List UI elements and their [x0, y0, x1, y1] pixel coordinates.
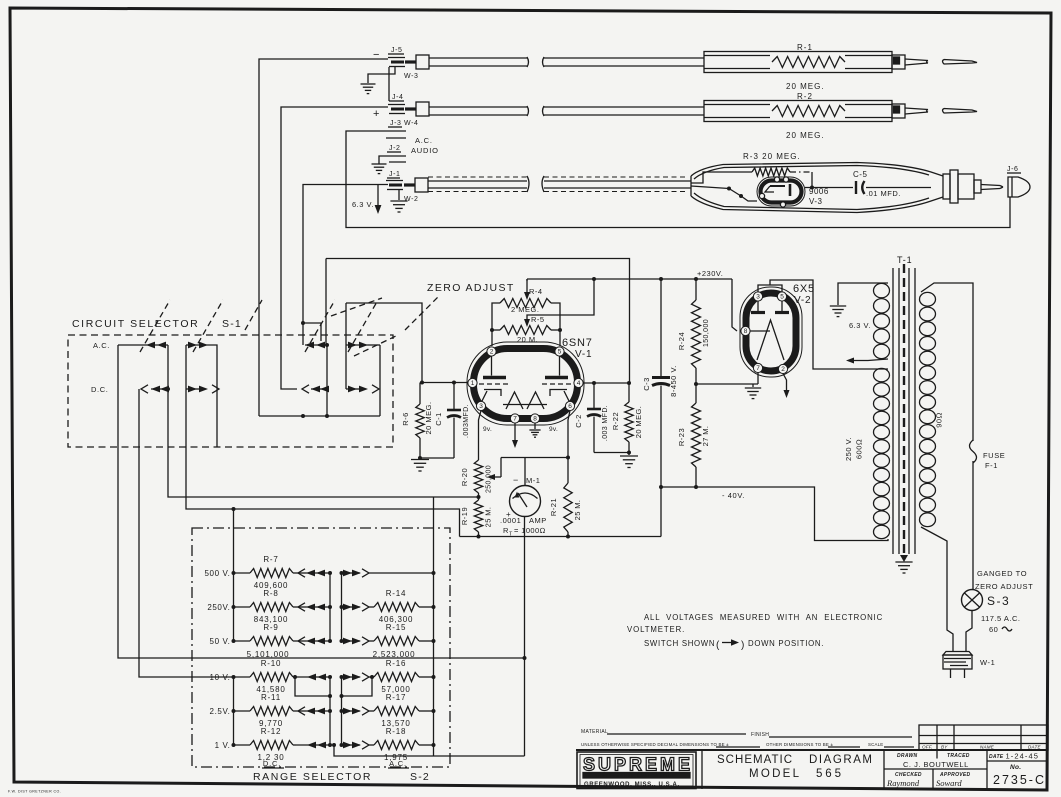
label A.C. AUDIO	[411, 136, 439, 155]
label CIRCUIT SELECTOR S-1	[72, 318, 242, 330]
ground J-5	[361, 84, 376, 94]
label R-22	[611, 406, 643, 438]
plug W-4	[404, 102, 429, 127]
svg-text:1: 1	[471, 380, 475, 387]
resistor R-19	[474, 497, 482, 539]
svg-text:20 MEG.: 20 MEG.	[424, 401, 433, 434]
wire node to contact	[303, 323, 321, 341]
pin V-2 7	[753, 363, 762, 372]
wire R-3 right dash-dot	[790, 172, 814, 190]
wire S-1 AC4 down	[379, 345, 381, 416]
wire R-5 wiper riser	[527, 277, 596, 317]
svg-text:1-24-45: 1-24-45	[1006, 752, 1040, 761]
svg-text:20 MEG.: 20 MEG.	[786, 82, 825, 91]
label FUSE F-1	[983, 451, 1005, 470]
label 6SN7 V-1	[562, 337, 593, 360]
tube V-2 6X5 envelope	[740, 287, 802, 377]
wire grid bus	[259, 414, 380, 418]
resistor R-2	[772, 106, 845, 117]
probe W-2 cable	[428, 176, 691, 192]
title block credits	[884, 750, 987, 789]
label 250V winding	[844, 437, 864, 461]
tube V-2 plates	[751, 300, 789, 313]
svg-text:= 1000Ω: = 1000Ω	[514, 526, 546, 535]
winding 90ohm	[920, 292, 936, 526]
probe R-2 tip	[892, 104, 977, 118]
svg-text:C-1: C-1	[434, 412, 443, 426]
svg-text:.003 MFD.: .003 MFD.	[602, 405, 609, 441]
wire 6.3V bottom arrow	[846, 358, 888, 364]
svg-text:2: 2	[490, 349, 494, 356]
tube V-3 9006	[757, 177, 805, 207]
wire 6.3V heater branch	[375, 185, 382, 215]
svg-text:20 M.: 20 M.	[517, 335, 538, 344]
svg-text:ZERO ADJUST: ZERO ADJUST	[975, 582, 1033, 591]
jack J-5	[388, 47, 405, 67]
resistor R-3	[752, 168, 790, 176]
svg-text:D.C.: D.C.	[91, 385, 108, 394]
ground J-1	[390, 201, 407, 212]
svg-text:+230V.: +230V.	[697, 269, 723, 278]
label 5,101,000	[247, 650, 290, 659]
wire meter plus riser	[524, 655, 526, 756]
label 6.3V jack	[352, 200, 374, 209]
wire probe cathode	[691, 186, 757, 201]
svg-text:TRACED: TRACED	[947, 753, 970, 759]
wire 10V jumper left	[293, 675, 332, 698]
label R-1	[797, 43, 813, 52]
label 117.5 A.C. 60	[981, 614, 1020, 634]
switch S-1 DC group1	[141, 385, 169, 393]
probe R-2 body	[704, 101, 892, 122]
svg-text:MODEL: MODEL	[749, 768, 801, 780]
svg-text:27 M.: 27 M.	[701, 426, 710, 447]
logo SUPREME	[577, 752, 696, 789]
svg-text:6.3 V.: 6.3 V.	[849, 321, 871, 330]
svg-text:W-2: W-2	[404, 196, 419, 203]
pin V-1 5	[555, 347, 564, 356]
svg-text:V-3: V-3	[809, 197, 823, 206]
switch S-1 AC group3	[305, 342, 329, 349]
svg-text:DATE: DATE	[989, 754, 1004, 760]
svg-text:1 V.: 1 V.	[215, 741, 231, 750]
svg-text:AUDIO: AUDIO	[411, 146, 439, 155]
wire S-2 right bus	[433, 497, 435, 745]
svg-text:C-2: C-2	[574, 414, 583, 428]
label RANGE SELECTOR S-2	[253, 771, 430, 783]
capacitor C-3	[652, 279, 670, 537]
wire pin2 heater arrow	[783, 374, 790, 399]
wire S-2 left bus lower	[233, 677, 235, 745]
label 6X5 V-2	[793, 283, 815, 306]
tube V-1 6SN7 envelope	[467, 342, 584, 425]
ground J-2	[372, 164, 387, 174]
svg-text:2.5V.: 2.5V.	[210, 707, 231, 716]
svg-text:R-12: R-12	[261, 727, 282, 736]
wire R-4 left riser	[492, 303, 500, 346]
svg-text:DATE: DATE	[1028, 745, 1041, 750]
svg-text:6.3 V.: 6.3 V.	[352, 200, 374, 209]
wire pin3 to R-20	[479, 411, 482, 461]
svg-text:.01 MFD.: .01 MFD.	[866, 189, 901, 198]
wire 90ohm bottom	[921, 527, 953, 651]
wire S-1 bus1 to R-20 node	[168, 389, 478, 497]
svg-text:T-1: T-1	[897, 255, 912, 265]
resistor R-22	[625, 383, 633, 455]
capacitor C-1	[447, 383, 461, 459]
node J-1 riser	[301, 321, 305, 325]
svg-text:25 M.: 25 M.	[573, 500, 582, 521]
svg-text:20 MEG.: 20 MEG.	[786, 131, 825, 140]
tube V-1 heater	[503, 392, 547, 409]
label R-21	[549, 498, 582, 521]
label 9v right	[549, 426, 558, 433]
note switch shown	[644, 639, 824, 651]
svg-text:DIAGRAM: DIAGRAM	[809, 754, 874, 766]
svg-text:5,101,000: 5,101,000	[247, 650, 290, 659]
pin V-2 2	[778, 364, 787, 373]
label R-2	[797, 92, 813, 101]
svg-text:R-21: R-21	[549, 498, 558, 516]
svg-text:SWITCH SHOWN: SWITCH SHOWN	[644, 639, 715, 648]
svg-text:2,523,000: 2,523,000	[373, 650, 416, 659]
resistor R-4	[500, 299, 551, 308]
wire to 6X5 pin8	[732, 279, 737, 331]
svg-text:R-6: R-6	[401, 412, 410, 426]
probe R-1 body	[704, 52, 892, 73]
wire J-1 sleeve to ground	[398, 190, 400, 201]
wire J-1 to S-1	[303, 185, 388, 346]
svg-text:3: 3	[756, 294, 760, 301]
wire S-1 AC group1 feed	[118, 344, 168, 346]
svg-text:(: (	[716, 640, 720, 651]
label R-24	[677, 319, 710, 350]
svg-text:R-5: R-5	[531, 315, 545, 324]
title block rules	[576, 729, 1048, 750]
label W-1	[980, 658, 995, 667]
label R-23	[677, 426, 710, 447]
wire lamp to plug	[966, 611, 972, 652]
label 2,523,000	[373, 650, 416, 659]
switch S-1 AC group1	[146, 342, 166, 349]
tube V-1 grids	[479, 383, 572, 385]
wire 90ohm top to fuse	[921, 283, 973, 441]
pin V-1 1	[468, 378, 477, 387]
svg-text:6SN7: 6SN7	[562, 337, 593, 349]
pot wiper R-5	[524, 317, 530, 327]
svg-text:C. J. BOUTWELL: C. J. BOUTWELL	[903, 760, 969, 769]
svg-text:S-1: S-1	[222, 318, 242, 330]
label 6.3V winding	[849, 321, 871, 330]
winding 6.3V	[874, 283, 890, 358]
svg-text:R-18: R-18	[386, 727, 407, 736]
svg-text:3: 3	[479, 403, 483, 410]
tube V-1 cathodes	[482, 390, 570, 403]
svg-text:R-7: R-7	[263, 555, 278, 564]
svg-text:J-1: J-1	[389, 171, 401, 178]
svg-text:J-5: J-5	[391, 47, 403, 54]
svg-text:250 V.: 250 V.	[844, 437, 853, 461]
pin V-2 3	[753, 292, 762, 301]
label R-20	[460, 465, 493, 493]
wire pin6 to R-21	[566, 411, 570, 484]
svg-text:R-2: R-2	[797, 92, 813, 101]
svg-text:A.C.: A.C.	[415, 136, 433, 145]
svg-text:BY: BY	[941, 745, 948, 750]
pot wiper R-20	[487, 458, 501, 481]
ground pin8	[529, 423, 540, 437]
winding 250V	[874, 368, 890, 538]
label R-2 value	[786, 131, 825, 140]
resistor R-6	[416, 383, 424, 459]
wire meter plus bus	[332, 743, 525, 756]
svg-text:9v.: 9v.	[483, 426, 492, 433]
svg-text:MATERIAL: MATERIAL	[581, 729, 608, 735]
svg-text:5: 5	[780, 294, 784, 301]
resistor rows R-7..R-12 R-14..R-18	[205, 555, 436, 762]
switch S-1 DC group4	[346, 385, 379, 393]
svg-text:OTHER DIMENSIONS TO BE ±: OTHER DIMENSIONS TO BE ±	[766, 742, 833, 747]
svg-text:90Ω: 90Ω	[935, 412, 944, 428]
wire S-1 gang bus1	[166, 345, 170, 391]
svg-text:R-24: R-24	[677, 332, 686, 350]
wire pin7 heater arrow	[512, 423, 518, 448]
wire J-5 to S-1	[259, 59, 388, 416]
svg-text:CIRCUIT SELECTOR: CIRCUIT SELECTOR	[72, 318, 199, 330]
tube V-2 cathode	[749, 320, 784, 360]
wire J-6 to J-3	[346, 131, 1010, 228]
svg-text:R-11: R-11	[261, 693, 281, 702]
svg-text:.003MFD.: .003MFD.	[463, 404, 470, 438]
svg-text:+: +	[373, 108, 379, 120]
svg-text:- 40V.: - 40V.	[722, 491, 745, 500]
svg-text:R-19: R-19	[460, 507, 469, 525]
wire J-5 sleeve to ground	[368, 67, 395, 102]
svg-text:UNLESS OTHERWISE SPECIFIED DEC: UNLESS OTHERWISE SPECIFIED DECIMAL DIMEN…	[581, 742, 729, 747]
ground core	[895, 555, 912, 573]
wire S-1 AC1 down	[118, 345, 527, 660]
probe R-1 cable	[429, 57, 704, 67]
wire bottom bus	[460, 536, 662, 538]
svg-text:W-1: W-1	[980, 658, 995, 667]
svg-text:2: 2	[781, 366, 785, 373]
label R-3 value	[743, 152, 801, 161]
resistor R-24	[692, 279, 701, 386]
svg-text:7: 7	[513, 416, 517, 423]
gang link S-1 dashed	[140, 297, 438, 356]
wire -40V bus	[661, 487, 888, 541]
capacitor C-2	[587, 383, 629, 453]
svg-text:W-4: W-4	[404, 120, 419, 127]
svg-text:FINISH: FINISH	[751, 732, 769, 738]
switch S-1 AC group2	[186, 342, 217, 447]
svg-text:AMP: AMP	[529, 516, 547, 525]
label M-1 rating	[500, 516, 547, 538]
wire plate to C-5	[805, 187, 853, 189]
label R-1 value	[786, 82, 825, 91]
svg-text:−: −	[513, 475, 518, 485]
label C-1	[434, 404, 470, 438]
label 9006 V-3	[809, 187, 829, 206]
svg-text:50 V.: 50 V.	[210, 637, 231, 646]
svg-text:250,000: 250,000	[486, 465, 493, 493]
resistor R-1	[772, 57, 845, 68]
jack J-2	[386, 145, 406, 162]
svg-text:INSTRUMENTS CORPORATION: INSTRUMENTS CORPORATION	[596, 774, 675, 778]
wire R-24 R-23 node to pin7	[696, 373, 758, 385]
resistor R-23	[692, 384, 701, 489]
svg-text:20 MEG.: 20 MEG.	[634, 406, 643, 438]
svg-text:VOLTMETER.: VOLTMETER.	[627, 625, 685, 634]
svg-text:GANGED TO: GANGED TO	[977, 569, 1027, 578]
selector S-2 box	[192, 528, 450, 767]
svg-text:R-10: R-10	[261, 659, 282, 668]
wire meter top	[501, 458, 568, 502]
svg-text:D.C.: D.C.	[263, 759, 281, 768]
svg-text:Raymond: Raymond	[886, 778, 920, 788]
svg-text:J-6: J-6	[1007, 166, 1019, 173]
svg-text:R-16: R-16	[386, 659, 407, 668]
probe R-1 tip	[892, 55, 977, 69]
svg-text:4: 4	[577, 380, 581, 387]
svg-text:565: 565	[816, 768, 843, 780]
plug W-1	[943, 652, 972, 679]
wire S-1 DC2 down	[186, 389, 460, 537]
pin V-1 7	[510, 414, 519, 423]
node C-3 -40V	[659, 485, 663, 489]
svg-text:25 M.: 25 M.	[484, 507, 493, 528]
wire S-1 DC1 down	[139, 389, 234, 677]
revision table	[919, 725, 1048, 750]
svg-text:M-1: M-1	[526, 476, 540, 485]
svg-text:W-3: W-3	[404, 73, 419, 80]
svg-text:R-17: R-17	[386, 693, 407, 702]
svg-text:117.5 A.C.: 117.5 A.C.	[981, 614, 1020, 623]
svg-text:9006: 9006	[809, 187, 829, 196]
svg-text:2735-C: 2735-C	[993, 773, 1046, 787]
wire plate bus	[583, 381, 631, 385]
label C-3	[642, 365, 678, 397]
probe connector rings	[943, 170, 1003, 203]
title text	[702, 750, 874, 789]
svg-text:60: 60	[989, 625, 998, 634]
label +230V	[697, 269, 723, 278]
plug W-3	[404, 55, 429, 80]
wire fuse to lamp	[972, 461, 974, 590]
svg-text:R-20: R-20	[460, 468, 469, 486]
meter M-1	[506, 475, 541, 519]
ground 6X5 cathode ret	[745, 384, 761, 399]
svg-text:DRAWN: DRAWN	[897, 753, 917, 759]
node grid bus	[0, 0, 1, 1]
label plus J-4	[373, 108, 379, 120]
svg-text:ALL VOLTAGES MEASURED WITH: ALL VOLTAGES MEASURED WITH AN ELECTRONIC	[644, 613, 883, 622]
wire 6.3V top to ground	[838, 283, 888, 305]
svg-text:R-3 20 MEG.: R-3 20 MEG.	[743, 152, 801, 161]
jack J-1	[386, 171, 403, 190]
label A.C. row	[93, 341, 110, 350]
switch S-1 DC group3	[302, 385, 329, 393]
svg-text:R-8: R-8	[263, 589, 278, 598]
wire screen top	[326, 259, 630, 384]
svg-text:FUSE: FUSE	[983, 451, 1005, 460]
probe R-2 cable	[429, 106, 704, 116]
svg-text:2 MEG.: 2 MEG.	[511, 305, 539, 314]
svg-text:OFF.: OFF.	[922, 745, 933, 750]
connector J-6	[1007, 166, 1030, 197]
svg-text:R-23: R-23	[677, 428, 686, 446]
svg-text:6: 6	[568, 403, 572, 410]
svg-text:SCHEMATIC: SCHEMATIC	[717, 754, 794, 766]
svg-text:V-2: V-2	[794, 295, 811, 306]
switch S-1 AC group4	[346, 342, 380, 349]
wire R-3 left	[691, 172, 752, 183]
resistor R-21	[564, 483, 572, 539]
label DC column	[262, 759, 284, 768]
svg-text:SCALE: SCALE	[868, 742, 883, 747]
ground R-6	[411, 460, 429, 472]
svg-text:A.C.: A.C.	[93, 341, 110, 350]
node R-6 ground	[418, 456, 454, 460]
wire meter bottom	[524, 517, 526, 656]
svg-text:): )	[741, 640, 744, 651]
wire V-2 plate staple	[758, 280, 888, 369]
svg-text:J-4: J-4	[392, 94, 404, 101]
label T-1	[897, 255, 912, 265]
label R-6	[401, 401, 433, 434]
svg-text:8-450 V.: 8-450 V.	[669, 365, 678, 397]
capacitor C-5	[853, 170, 901, 198]
svg-text:S-2: S-2	[410, 771, 430, 783]
corner imprint text	[8, 790, 61, 794]
wire J-4 to S-1	[281, 107, 388, 389]
wire S-2 left bus upper	[232, 507, 236, 641]
svg-text:S-3: S-3	[987, 594, 1010, 608]
svg-text:7: 7	[756, 365, 760, 372]
pin V-2 5	[777, 292, 786, 301]
svg-text:F-1: F-1	[985, 461, 998, 470]
switch S-1 DC group2	[186, 345, 219, 393]
svg-text:.0001: .0001	[500, 516, 521, 525]
node R-20 R-19	[477, 495, 481, 499]
wire S-2 gang buses	[330, 573, 342, 745]
fuse F-1	[970, 440, 977, 463]
probe body V-3	[691, 163, 943, 213]
wire S-1 group4 riser	[345, 303, 347, 389]
pin V-1 8	[530, 414, 539, 423]
svg-text:10 V.: 10 V.	[210, 673, 231, 682]
svg-text:No.: No.	[1010, 764, 1021, 771]
label R-4	[511, 287, 543, 314]
wire S-1 gang bus3	[325, 345, 329, 418]
svg-text:Soward: Soward	[936, 778, 962, 788]
svg-text:8: 8	[744, 328, 748, 335]
svg-text:ZERO ADJUST: ZERO ADJUST	[427, 282, 515, 294]
svg-text:V-1: V-1	[575, 349, 592, 360]
label R-19	[460, 507, 493, 528]
pin V-1 2	[487, 347, 496, 356]
svg-text:R-22: R-22	[611, 412, 620, 430]
wire R-5 right to pin5	[559, 330, 561, 346]
svg-text:8: 8	[533, 416, 537, 423]
pin V-2 8	[741, 326, 750, 335]
label ZERO ADJUST	[427, 282, 515, 294]
svg-text:DOWN POSITION.: DOWN POSITION.	[748, 639, 824, 648]
svg-text:R-4: R-4	[529, 287, 543, 296]
label R-5	[517, 315, 545, 344]
svg-text:A.C.: A.C.	[389, 759, 407, 768]
svg-text:R-9: R-9	[263, 623, 278, 632]
